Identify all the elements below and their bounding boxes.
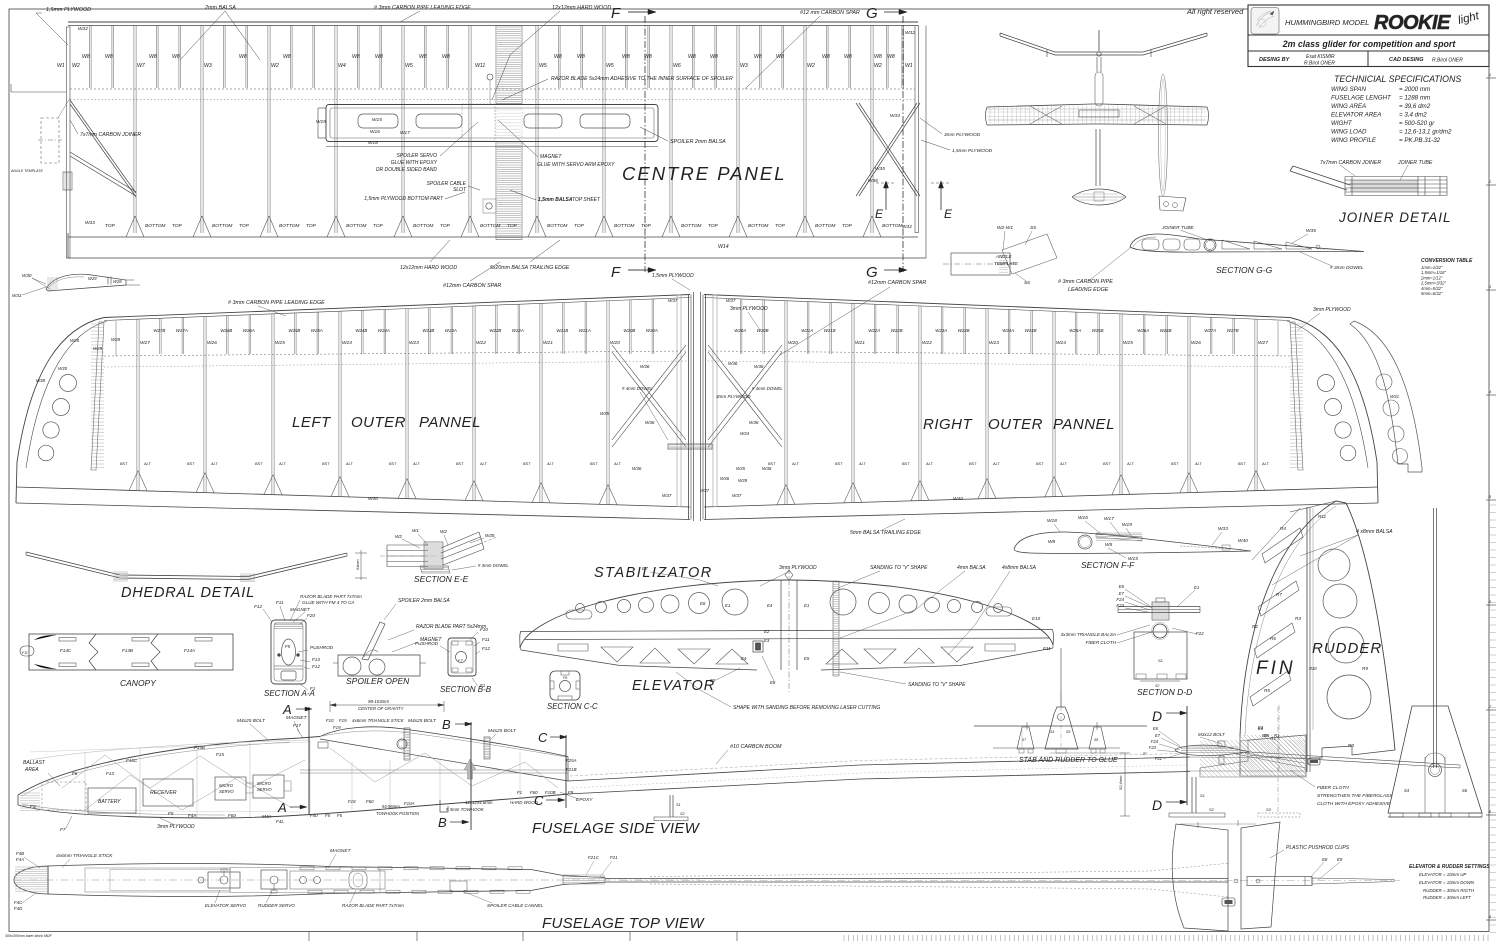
svg-text:E7: E7 [1155,733,1161,738]
svg-text:BST: BST [322,462,330,466]
svg-text:BST: BST [1103,462,1111,466]
section D-D stab bar [1118,606,1200,608]
section F-F hatched spar [1096,533,1142,541]
svg-text:W8: W8 [710,54,718,60]
svg-text:W31: W31 [12,293,22,298]
svg-text:#10 CARBON BOOM: #10 CARBON BOOM [730,744,782,750]
svg-text:BATTERY: BATTERY [98,799,121,805]
svg-text:W21A: W21A [801,328,813,333]
svg-text:300x300mm lazer block MDF: 300x300mm lazer block MDF [5,934,53,938]
fin slot braces [1262,528,1303,563]
svg-text:F25A: F25A [566,758,577,763]
svg-text:SPOILER OPEN: SPOILER OPEN [346,676,410,686]
svg-text:= 1288 mm: = 1288 mm [1399,95,1430,102]
svg-text:F20: F20 [307,613,315,618]
svg-text:TECHNICIAL SPECIFICATIONS: TECHNICIAL SPECIFICATIONS [1334,74,1461,84]
svg-text:SECTION E-E: SECTION E-E [414,574,469,584]
section A-A box [271,620,306,684]
svg-text:W17: W17 [400,130,410,136]
svg-text:98-103mm: 98-103mm [368,699,389,704]
svg-text:PLASTIC PUSHROD CLIPS: PLASTIC PUSHROD CLIPS [1286,845,1350,851]
boom support stand [669,795,671,817]
svg-text:R6: R6 [1270,636,1276,641]
svg-text:W8: W8 [887,54,895,60]
boom end lines [1187,757,1306,758]
svg-text:W3: W3 [740,63,748,69]
svg-text:W35: W35 [875,166,885,172]
svg-text:W8: W8 [688,54,696,60]
svg-text:AREA: AREA [24,767,39,773]
svg-text:ALT: ALT [412,462,420,466]
svg-text:W25: W25 [275,340,285,346]
svg-text:1,5mm PLYWOOD BOTTOM PART: 1,5mm PLYWOOD BOTTOM PART [364,196,444,202]
svg-text:F4L: F4L [276,819,284,824]
short rib at x=247 [245,26,247,89]
svg-text:PANNEL: PANNEL [419,414,481,431]
svg-text:SERVO: SERVO [257,787,272,792]
svg-text:W20A: W20A [734,328,746,333]
rib at x=604 [602,26,604,234]
svg-text:W28: W28 [111,337,121,342]
battery box [88,788,136,813]
svg-text:F: F [611,5,621,22]
section D-D fin base [1134,632,1187,679]
svg-text:WING AREA: WING AREA [1331,103,1366,110]
svg-text:12x12mm HARD WOOD: 12x12mm HARD WOOD [552,5,611,11]
svg-text:F23: F23 [1116,603,1124,608]
svg-text:BOTTOM: BOTTOM [882,223,902,229]
left joiner diagonals [70,100,136,193]
svg-text:#12mm CARBON SPAR: #12mm CARBON SPAR [868,280,926,286]
svg-text:W2-W1: W2-W1 [997,225,1013,231]
svg-text:F24: F24 [1116,597,1124,602]
svg-text:RECEIVER: RECEIVER [150,790,177,796]
svg-text:E7: E7 [1119,591,1125,596]
tail slant braces [1240,752,1310,764]
svg-text:= 3,4 dm2: = 3,4 dm2 [1399,112,1427,119]
pushrod clip tail [1308,758,1320,765]
spoiler slot 580 [580,114,630,128]
rudder hinge line [1306,507,1308,772]
svg-text:W34: W34 [890,113,900,119]
short rib at x=693 [692,26,694,89]
svg-text:E6: E6 [1119,584,1125,589]
svg-text:W31: W31 [1390,394,1400,399]
svg-text:SECTION D-D: SECTION D-D [1137,687,1192,697]
svg-text:W1: W1 [57,63,65,69]
svg-text:GLUE WITH SERVO ARM EPOXY: GLUE WITH SERVO ARM EPOXY [537,162,615,168]
rib at x=403 [401,26,403,234]
svg-text:# 3mm CARBON PIPE LEADING EDGE: # 3mm CARBON PIPE LEADING EDGE [228,300,325,306]
svg-text:B: B [438,815,447,830]
svg-text:ALT: ALT [1194,462,1202,466]
svg-text:R3: R3 [1295,616,1301,621]
svg-text:S3: S3 [1266,807,1272,812]
svg-text:TOP: TOP [440,223,451,229]
svg-text:W2: W2 [807,63,815,69]
stab and rudder glue front view [974,725,1147,727]
svg-text:BOTTOM: BOTTOM [346,223,366,229]
svg-text:F10B: F10B [545,790,556,795]
svg-text:BST: BST [590,462,598,466]
nose hatch [20,792,40,794]
svg-text:W36: W36 [762,466,772,471]
left short ribs near W23 [428,308,430,354]
stabilizator centre joint [780,580,782,670]
svg-text:W8: W8 [283,54,291,60]
A section line [308,707,310,815]
crescent holes [1376,374,1392,390]
svg-text:W40: W40 [1238,538,1248,544]
svg-text:W23: W23 [409,340,419,346]
svg-text:W25A: W25A [1069,328,1081,333]
micro servo boxes [215,777,246,800]
svg-text:64mm: 64mm [356,559,360,570]
svg-text:R0: R0 [1348,743,1354,748]
stabilizator outline [520,580,1053,648]
svg-text:SECTION B-B: SECTION B-B [440,685,492,694]
svg-text:RAZOR BLADE PART 7x7mm: RAZOR BLADE PART 7x7mm [300,594,362,599]
right short ribs near W22 [896,305,898,354]
svg-text:W30: W30 [22,273,32,278]
svg-text:W8: W8 [822,54,830,60]
svg-text:CENTRE PANEL: CENTRE PANEL [622,163,787,184]
svg-text:= 12,6-13,1 gr/dm2: = 12,6-13,1 gr/dm2 [1399,129,1452,136]
svg-text:SANDING TO “V” SHAPE: SANDING TO “V” SHAPE [908,682,966,688]
svg-text:W8: W8 [172,54,180,60]
svg-text:ELEVATOR SERVO: ELEVATOR SERVO [205,903,247,908]
section E-E beams [387,544,428,546]
svg-text:S4: S4 [1404,788,1410,793]
svg-text:W23: W23 [989,340,999,346]
svg-text:W8: W8 [375,54,383,60]
angle template detail [951,253,1010,275]
svg-text:W36: W36 [720,476,730,481]
left root X braces [612,345,686,440]
svg-text:-5: -5 [1488,495,1491,499]
svg-text:W23A: W23A [445,328,457,333]
svg-text:W38: W38 [36,378,46,383]
svg-text:W25A: W25A [311,328,323,333]
section D-D clamp [1152,602,1169,620]
svg-text:DHEDRAL DETAIL: DHEDRAL DETAIL [121,585,255,601]
center of gravity dimension [330,704,444,706]
svg-text:F18: F18 [348,799,356,804]
fin diagonal top [1290,501,1336,512]
svg-text:ALT: ALT [992,462,1000,466]
svg-text:F23: F23 [1149,745,1157,750]
svg-text:W19: W19 [316,119,326,125]
svg-text:SECTION C-C: SECTION C-C [547,702,598,711]
section E-E hatched joint [424,542,443,569]
svg-text:W5: W5 [606,63,614,69]
svg-text:W20: W20 [788,340,798,346]
svg-text:W18: W18 [368,140,378,146]
svg-text:FUSELAGE TOP VIEW: FUSELAGE TOP VIEW [542,915,705,932]
svg-text:3mm PLYWOOD: 3mm PLYWOOD [730,306,768,312]
right rib W20 [784,301,786,505]
fuselage top view nose [14,866,48,894]
svg-text:W20B: W20B [757,328,769,333]
svg-text:W37: W37 [700,488,710,493]
svg-text:W22B: W22B [489,328,501,333]
svg-text:MAGNET: MAGNET [540,154,562,160]
svg-text:F12: F12 [312,664,320,669]
short rib at x=314 [312,26,314,89]
svg-text:S8: S8 [1094,738,1098,742]
right panel detached tip crescent W31 [1350,321,1422,472]
spoiler servo dashed box [462,104,495,141]
title block outer box [1248,5,1489,67]
svg-text:93-96mm: 93-96mm [382,804,400,809]
section E-E lower block [420,566,450,573]
fuselage nose inner lines [22,742,290,796]
left rib W24 [338,311,340,496]
svg-text:BST: BST [389,462,397,466]
svg-text:TOP: TOP [507,223,518,229]
left short ribs near W21 [562,303,564,355]
svg-text:BALLAST: BALLAST [23,760,46,766]
svg-text:W19: W19 [1122,522,1132,528]
svg-text:ANGLE: ANGLE [995,254,1013,259]
left short ribs near W27 [159,318,161,354]
short rib at x=783 [781,26,783,89]
left rib W22 [472,306,474,501]
rudder circles [1318,549,1350,581]
svg-text:RUDDER SERVO: RUDDER SERVO [258,903,295,908]
svg-text:OR DOUBLE SIDED BAND: OR DOUBLE SIDED BAND [376,167,438,173]
short rib at x=291 [290,26,292,89]
right rib W26 [1187,317,1189,493]
svg-text:W8: W8 [419,54,427,60]
svg-text:W24: W24 [1056,340,1066,346]
svg-text:F10: F10 [326,718,334,723]
svg-text:W37: W37 [726,298,736,303]
section B-B box [448,638,476,676]
svg-text:W5: W5 [539,63,547,69]
fin outline [1240,501,1346,736]
svg-text:WING PROFILE: WING PROFILE [1331,137,1377,144]
svg-text:F10A: F10A [404,801,415,806]
svg-text:JOINER TUBE: JOINER TUBE [1161,225,1195,231]
wing bolts and fittings [404,728,410,760]
svg-text:HARD WOOD: HARD WOOD [510,800,539,805]
left rib W21 [539,303,541,502]
joiner slot on left edge [63,172,72,190]
svg-text:LEADING EDGE: LEADING EDGE [1068,287,1109,293]
svg-text:ALT: ALT [1126,462,1134,466]
rib at x=336 [334,26,336,234]
svg-text:5mm=6/32": 5mm=6/32" [1421,291,1443,296]
svg-text:LEFT: LEFT [292,414,332,431]
svg-text:W11: W11 [475,63,485,69]
svg-text:F60: F60 [530,790,538,795]
svg-text:1,5mm PLYWOOD: 1,5mm PLYWOOD [652,273,694,279]
svg-text:C: C [538,730,548,745]
rod from elevator down to glue view [1060,648,1062,690]
svg-text:TOP SHEET: TOP SHEET [572,197,601,203]
svg-text:S4: S4 [1050,730,1054,734]
D section line tail [1186,706,1188,805]
svg-text:SECTION G-G: SECTION G-G [1216,265,1273,275]
svg-text:W8: W8 [239,54,247,60]
svg-text:W24B: W24B [355,328,367,333]
svg-text:3mm PLYWOOD: 3mm PLYWOOD [716,394,751,399]
svg-text:RAZOR BLADE PART 5x24mm: RAZOR BLADE PART 5x24mm [416,624,486,630]
svg-text:FIBER CLOTH: FIBER CLOTH [1086,640,1117,645]
left outer panel trailing edge [16,487,690,507]
section C-C box [550,671,580,700]
bottom ruler [308,932,310,941]
tail top view boom [605,878,1228,880]
spoiler open detail [338,655,420,676]
left tip hatched plywood strip [91,322,104,470]
svg-text:A: A [282,702,292,717]
svg-text:RIGHT: RIGHT [923,416,974,433]
svg-text:W6: W6 [673,63,681,69]
svg-text:52,4mm: 52,4mm [1118,775,1123,790]
right tip lightening holes [1318,375,1335,392]
svg-text:# 3mm TOWHOOK: # 3mm TOWHOOK [446,807,485,812]
svg-text:W25B: W25B [1092,328,1104,333]
svg-text:W20A: W20A [646,328,658,333]
right rib W24 [1052,311,1054,496]
right short ribs near W23 [963,308,965,354]
svg-text:# 3mm CARBON PIPE: # 3mm CARBON PIPE [1058,279,1113,285]
svg-text:1,5mm PLYWOOD: 1,5mm PLYWOOD [46,7,91,13]
tail top dimension ticks [1197,822,1199,828]
svg-text:ALT: ALT [925,462,933,466]
svg-text:R2: R2 [1252,624,1258,629]
svg-text:E4: E4 [741,656,747,661]
svg-text:BOTTOM: BOTTOM [480,223,500,229]
svg-text:E3: E3 [764,638,770,643]
svg-text:ELEVATOR & RUDDER SETTINGS: ELEVATOR & RUDDER SETTINGS [1409,864,1490,870]
svg-text:F3: F3 [30,804,36,810]
svg-text:STABILIZATOR: STABILIZATOR [594,565,713,581]
short rib at x=582 [580,26,582,89]
svg-text:W2: W2 [72,63,80,69]
svg-text:ALT: ALT [479,462,487,466]
svg-text:W22B: W22B [891,328,903,333]
svg-text:W2: W2 [874,63,882,69]
rib at x=269 [267,26,269,234]
logo box hummingbird [1251,8,1279,35]
svg-text:ALT: ALT [1261,462,1269,466]
right root X braces [708,345,782,440]
right rib W23 [985,309,987,499]
svg-text:M3x12 BOLT: M3x12 BOLT [1198,732,1226,737]
svg-text:M4A: M4A [262,814,271,819]
tail dimension 52mm [1124,753,1126,816]
tail stab cross section [1175,745,1250,755]
svg-text:BST: BST [969,462,977,466]
svg-text:# 3mm DOWEL: # 3mm DOWEL [478,563,509,568]
svg-text:OUTER: OUTER [988,416,1043,433]
right panel spar dotted lines [706,351,1290,356]
svg-text:W14: W14 [718,244,729,250]
svg-text:S1: S1 [1200,793,1205,798]
svg-text:W15: W15 [372,117,382,123]
joiner detail bar [1293,166,1350,185]
left short ribs near W24 [361,310,363,354]
svg-text:-2: -2 [1488,180,1491,184]
elevator outline [521,650,757,670]
svg-text:E6: E6 [700,601,706,606]
short rib at x=887 [886,26,888,89]
svg-text:W25: W25 [1123,340,1133,346]
left rib W23 [405,309,407,499]
short rib at x=224 [223,26,225,89]
rib at x=738 [736,26,738,234]
short rib at x=90 [89,26,91,89]
svg-text:W17: W17 [1104,516,1114,522]
svg-text:F5: F5 [285,644,291,649]
svg-text:W40: W40 [953,496,963,502]
svg-text:F15: F15 [216,752,224,757]
svg-text:F13: F13 [312,657,320,662]
svg-text:TOP: TOP [306,223,317,229]
svg-text:W8: W8 [1048,539,1056,545]
svg-text:= 500-520 gr: = 500-520 gr [1399,120,1435,127]
svg-text:FIN: FIN [1256,658,1296,679]
svg-text:ALT: ALT [791,462,799,466]
short rib at x=381 [379,26,381,89]
rudder front view rod [1433,508,1435,768]
svg-text:CANOPY: CANOPY [120,678,157,688]
svg-text:SECTION A-A: SECTION A-A [264,689,315,698]
svg-text:R11: R11 [1318,514,1327,519]
left tip short ribs [115,321,117,356]
fuselage internal frames [84,752,86,816]
right outer panel root edge [705,295,707,520]
svg-text:W27B: W27B [1227,328,1239,333]
svg-text:W39: W39 [738,478,748,483]
svg-text:F.D: F.D [22,651,28,655]
svg-text:D: D [1152,797,1162,813]
svg-text:All right reserved: All right reserved [1186,7,1244,16]
svg-text:E10: E10 [1032,616,1041,621]
svg-text:7x7mm CARBON JOINER: 7x7mm CARBON JOINER [80,132,141,138]
svg-text:W22A: W22A [868,328,880,333]
svg-text:SANDING TO “V” SHAPE: SANDING TO “V” SHAPE [870,565,928,571]
rib at x=537 [535,26,537,234]
svg-text:F14B: F14B [122,648,133,653]
fuselage side view outline [18,737,320,796]
svg-text:W36: W36 [645,420,655,425]
svg-text:W18: W18 [1047,518,1057,524]
right short ribs near W21 [829,303,831,355]
svg-text:W8: W8 [622,54,630,60]
svg-text:WING SPAN: WING SPAN [1331,86,1366,93]
svg-text:F5: F5 [337,813,343,818]
short rib at x=716 [714,26,716,89]
svg-text:W36: W36 [640,364,650,369]
svg-text:W34: W34 [740,431,750,436]
svg-text:ELEVATOR: ELEVATOR [632,678,715,694]
svg-text:# 4mm DOWEL: # 4mm DOWEL [622,386,653,391]
svg-text:F8: F8 [563,676,567,680]
tail pushrod dotted lines [650,871,1150,877]
svg-text:SPOILER CABLE CANNEL: SPOILER CABLE CANNEL [487,903,544,908]
svg-text:R5: R5 [1264,688,1270,693]
svg-text:S1: S1 [676,803,681,807]
svg-text:S6: S6 [1024,280,1030,286]
svg-text:ALT: ALT [143,462,151,466]
F section line [644,16,646,272]
svg-text:M4x25 BOLT: M4x25 BOLT [488,728,517,734]
svg-text:RAZOR BLADE 5x24mm ADHESIVE TO: RAZOR BLADE 5x24mm ADHESIVE TO THE INNER… [551,76,733,82]
